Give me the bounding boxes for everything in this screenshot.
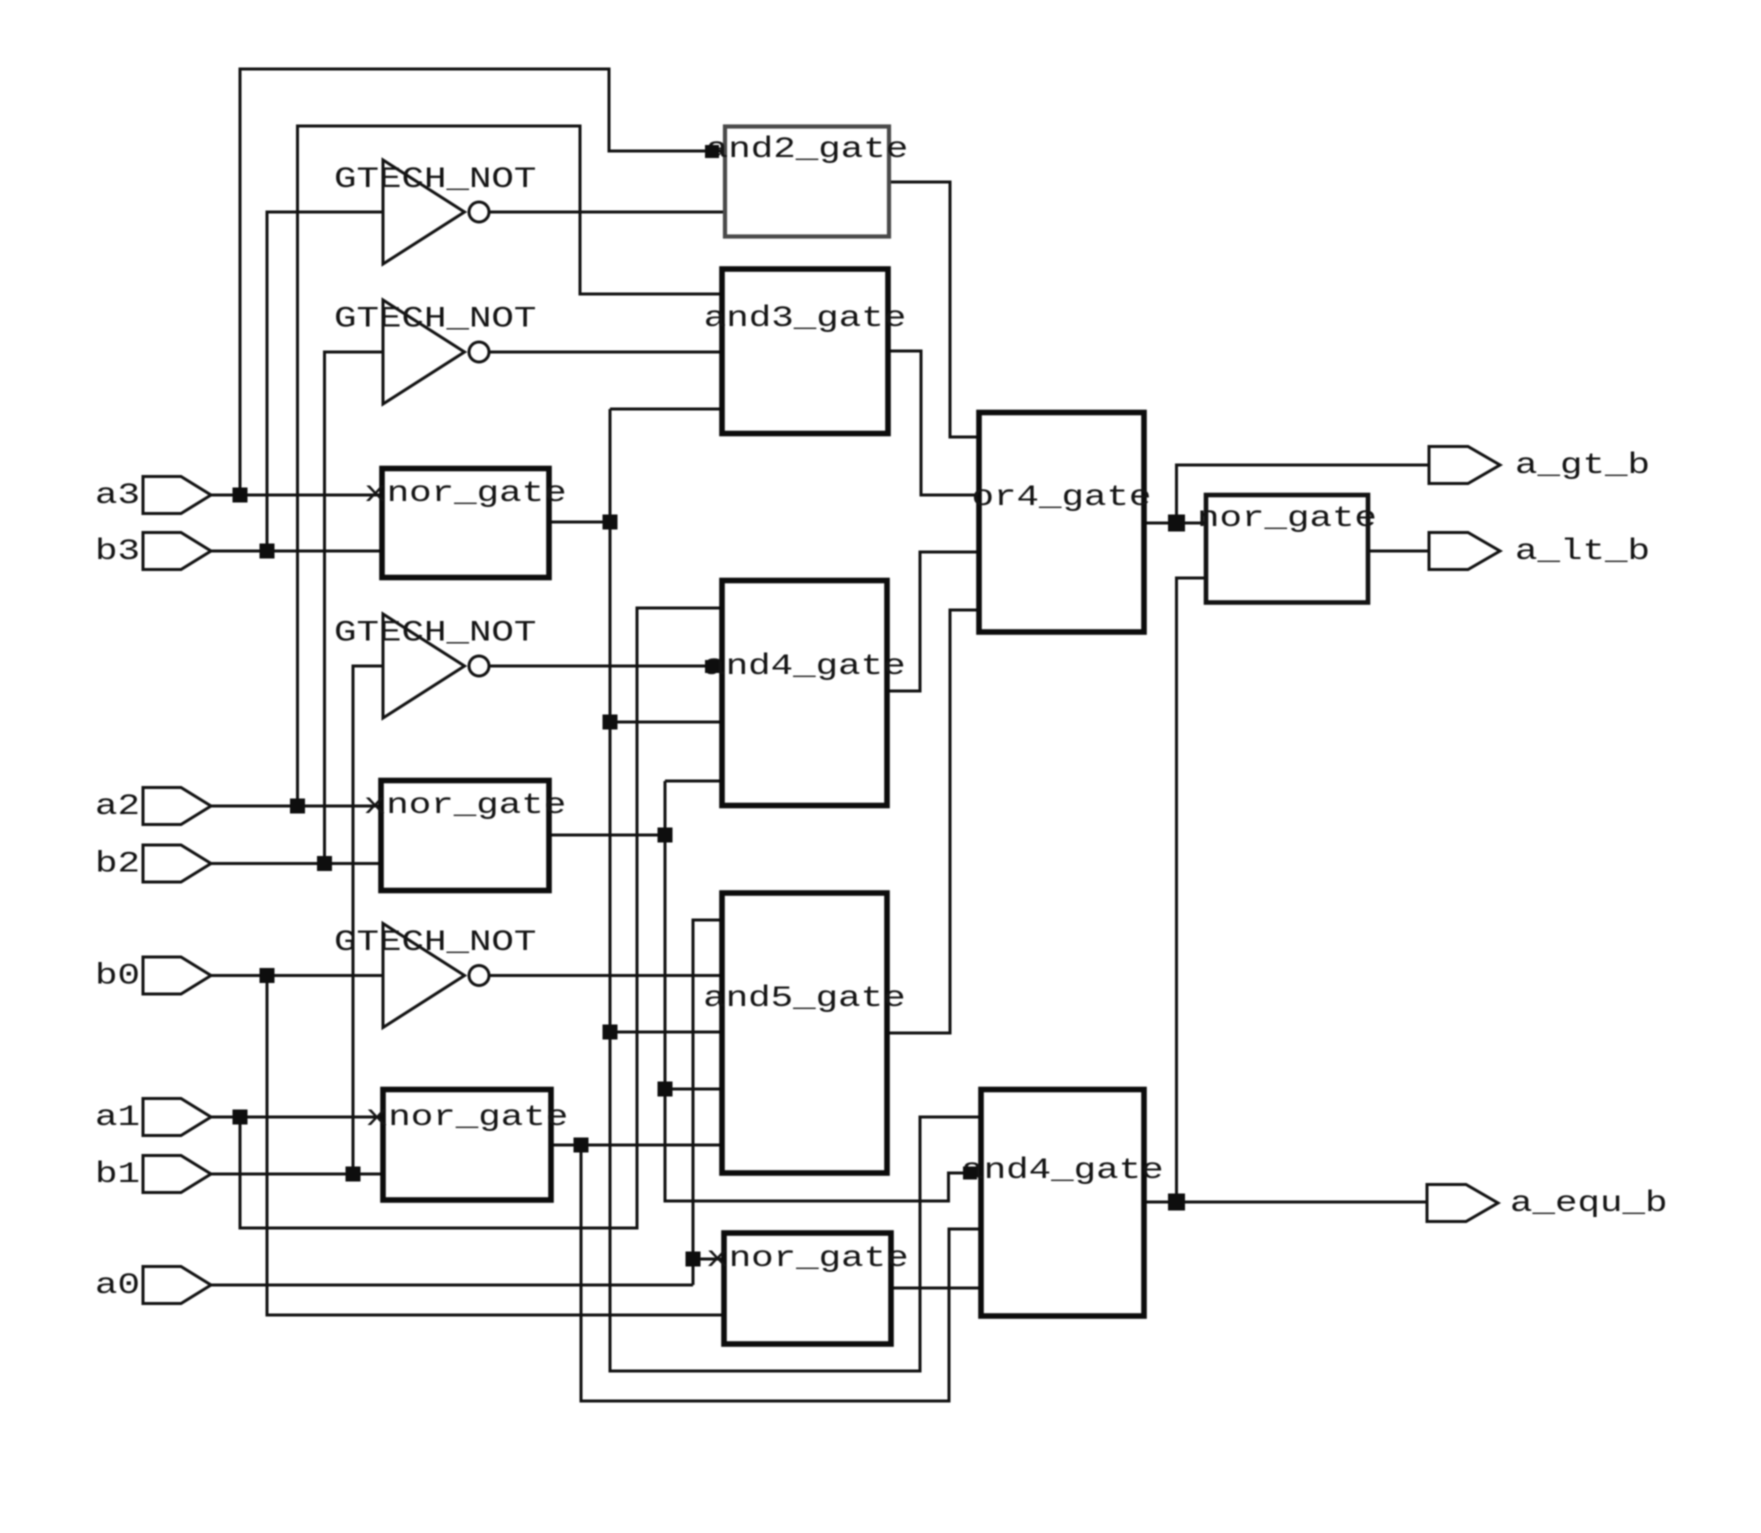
- gate or4_gate U11: [972, 413, 1152, 633]
- wire net a3: port a3 to xnor_gate U3 in1, and up to and2_gate U1 in1: [211, 69, 727, 495]
- inverter GTECH_NOT U2: [334, 160, 536, 264]
- inverter GTECH_NOT U5: [334, 300, 536, 404]
- junction node xnor3c: [603, 1025, 618, 1040]
- input port a1: [95, 1099, 211, 1136]
- gate and5_gate U10: [703, 893, 905, 1173]
- junction node a1: [233, 1110, 248, 1125]
- input port a3: [95, 477, 211, 514]
- wire net not_b1: GTECH_NOT U8 output to and4_gate U7 in2: [488, 665, 723, 668]
- svg-text:a_gt_b: a_gt_b: [1515, 449, 1650, 483]
- input port b2: [95, 845, 211, 882]
- wire net a_lt_b: nor_gate U15 output to port a_lt_b: [1368, 550, 1429, 553]
- svg-text:a0: a0: [95, 1269, 140, 1303]
- gate and4_gate U13: [961, 1090, 1163, 1317]
- svg-text:a3: a3: [95, 479, 140, 513]
- wire net and5_out: and5_gate U10 output to or4_gate U11 in4: [887, 610, 979, 1033]
- junction node equ: [1168, 1194, 1185, 1211]
- svg-text:b3: b3: [95, 535, 140, 569]
- svg-text:b1: b1: [95, 1158, 140, 1192]
- pin marker and4_gate U7 pin2: [705, 660, 719, 673]
- wire net a0: port a0 up to and5_gate U10 in1 and xnor_gate U14 in1: [211, 920, 724, 1285]
- svg-text:and4_gate: and4_gate: [703, 650, 905, 684]
- output port a_equ_b: [1427, 1185, 1667, 1222]
- svg-text:b0: b0: [95, 960, 140, 994]
- junction node gt: [1168, 515, 1185, 532]
- junction node xnor1a: [574, 1138, 589, 1153]
- svg-text:b2: b2: [95, 848, 140, 882]
- wire net a1: port a1 to xnor_gate U12 in1, and around to and4_gate U7 in1: [211, 608, 723, 1228]
- junction node xnor2a: [658, 828, 673, 843]
- wire net a_gt_b: or4_gate U11 output to nor_gate U15 in1 and port a_gt_b: [1146, 465, 1429, 523]
- svg-text:a_equ_b: a_equ_b: [1510, 1187, 1667, 1221]
- input port b1: [95, 1156, 211, 1193]
- svg-text:GTECH_NOT: GTECH_NOT: [334, 303, 536, 337]
- svg-text:xnor_gate: xnor_gate: [364, 477, 566, 511]
- wire net not_b0: GTECH_NOT U9 output to and5_gate U10 in2: [488, 974, 723, 977]
- inverter GTECH_NOT U8: [334, 614, 536, 718]
- svg-text:xnor_gate: xnor_gate: [364, 789, 566, 823]
- gate and2_gate U1: [706, 127, 908, 237]
- svg-text:GTECH_NOT: GTECH_NOT: [334, 617, 536, 651]
- junction node a3: [233, 488, 248, 503]
- wire net xnor1_out: xnor_gate U12 output to and5_gate U10 in5 and around to and4_gate U13 in3: [551, 1145, 981, 1401]
- svg-text:a2: a2: [95, 790, 140, 824]
- wire net b1: port b1 to xnor_gate U12 in2, and up to GTECH_NOT U8 input: [211, 666, 384, 1174]
- wire net xnor0_out: xnor_gate U14 output to and4_gate U13 in4: [891, 1287, 981, 1290]
- gate xnor_gate U6: [364, 781, 566, 891]
- svg-text:a1: a1: [95, 1101, 140, 1135]
- junction node a2: [290, 799, 305, 814]
- gate xnor_gate U3: [364, 469, 566, 578]
- gate nor_gate U15: [1197, 495, 1377, 603]
- junction node b1: [346, 1167, 361, 1182]
- wire net a_equ_b: and4_gate U13 output to port a_equ_b and up to nor_gate U15 in2: [1146, 578, 1427, 1202]
- wire net and4_out: and4_gate U7 output to or4_gate U11 in3: [887, 552, 979, 691]
- gate xnor_gate U14: [706, 1233, 908, 1344]
- svg-text:a_lt_b: a_lt_b: [1515, 535, 1650, 569]
- input port a0: [95, 1267, 211, 1304]
- svg-text:and3_gate: and3_gate: [704, 302, 906, 336]
- pin marker and2_gate U1 pin1: [705, 145, 719, 158]
- junction node xnor2b: [658, 1082, 673, 1097]
- wire net b3: port b3 to xnor_gate U3 in2, and up to GTECH_NOT U2 input: [211, 212, 384, 551]
- svg-text:xnor_gate: xnor_gate: [366, 1101, 568, 1135]
- wire net not_b2: GTECH_NOT U5 output to and3_gate U4 in2: [488, 351, 723, 354]
- wire net not_b3: GTECH_NOT U2 output to and2_gate U1 in2: [488, 211, 727, 214]
- gate xnor_gate U12: [366, 1090, 568, 1201]
- pin marker and4_gate U13 pin2: [963, 1167, 977, 1180]
- junction node xnor3a: [603, 515, 618, 530]
- wire net xnor3_out: xnor_gate U3 output bus to and3_gate U4 in3, and4_gate U7 in3, and5_gate U10 in3, and4_gate U13 in1: [549, 409, 981, 1371]
- output port a_lt_b: [1429, 533, 1650, 570]
- junction node b3: [260, 544, 275, 559]
- input port b3: [95, 533, 211, 570]
- wire net and2_out: and2_gate U1 output to or4_gate U11 in1: [889, 182, 979, 437]
- wire net and3_out: and3_gate U4 output to or4_gate U11 in2: [887, 351, 979, 495]
- svg-text:and2_gate: and2_gate: [706, 133, 908, 167]
- junction node a0: [686, 1252, 701, 1267]
- svg-text:and4_gate: and4_gate: [961, 1154, 1163, 1188]
- svg-text:and5_gate: and5_gate: [703, 982, 905, 1016]
- svg-text:nor_gate: nor_gate: [1197, 502, 1377, 536]
- svg-text:xnor_gate: xnor_gate: [706, 1242, 908, 1276]
- svg-text:GTECH_NOT: GTECH_NOT: [334, 926, 536, 960]
- input port a2: [95, 788, 211, 825]
- wire net b0: port b0 to GTECH_NOT U9 input and down to xnor_gate U14 in2: [211, 976, 724, 1316]
- output port a_gt_b: [1429, 447, 1650, 484]
- inverter GTECH_NOT U9: [334, 924, 536, 1028]
- wire net b2: port b2 to xnor_gate U6 in2, and up to GTECH_NOT U5 input: [211, 352, 384, 864]
- junction node xnor3b: [603, 715, 618, 730]
- svg-text:GTECH_NOT: GTECH_NOT: [334, 163, 536, 197]
- gate and3_gate U4: [704, 269, 906, 434]
- wire net xnor2_out: xnor_gate U6 output bus to and4_gate U7 in4, and5_gate U10 in4, and4_gate U13 in2: [549, 781, 981, 1201]
- junction node b2: [317, 856, 332, 871]
- junction node b0: [260, 968, 275, 983]
- svg-text:or4_gate: or4_gate: [972, 481, 1152, 515]
- input port b0: [95, 957, 211, 994]
- gate and4_gate U7: [703, 581, 905, 806]
- wire net a2: port a2 to xnor_gate U6 in1, and up to and3_gate U4 in1: [211, 126, 723, 806]
